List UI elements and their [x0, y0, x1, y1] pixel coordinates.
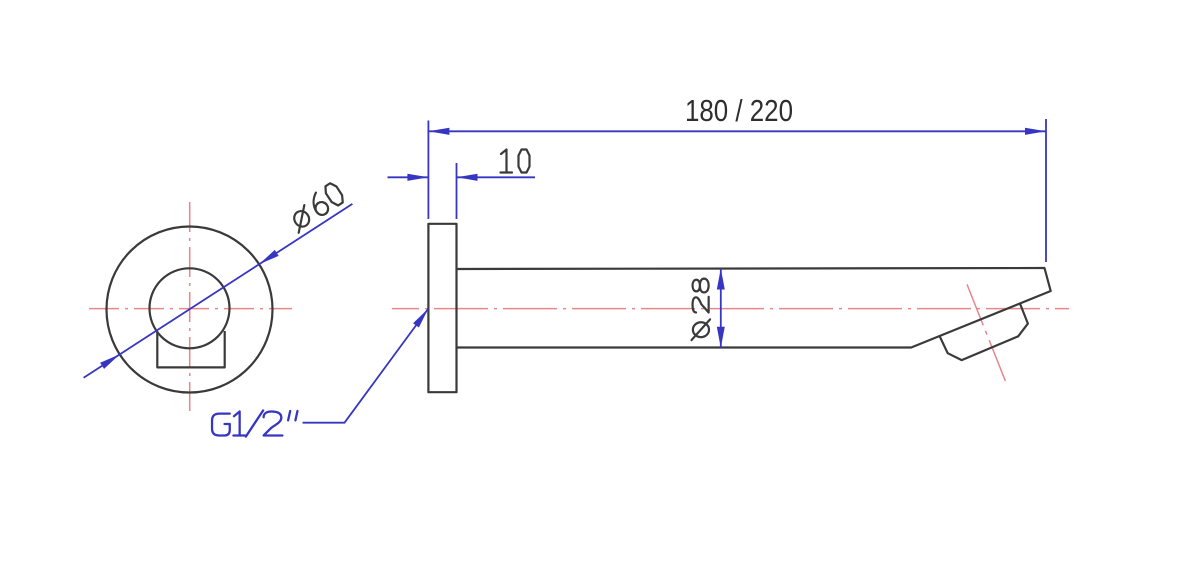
svg-text:180 / 220: 180 / 220	[685, 93, 793, 128]
